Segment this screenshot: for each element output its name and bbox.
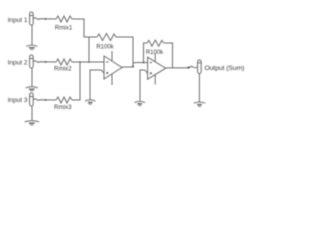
svg-text:Rmix3: Rmix3 [54,104,72,111]
ground GND5 (U2 + input) [135,101,145,105]
svg-text:Input 2: Input 2 [8,60,28,67]
junction dot row3 [45,99,47,101]
op-amp U1 plus mark [106,72,109,74]
wire Rmix1 to summing node [72,19,89,37]
ground GND2 below J2 [26,87,38,91]
ground GND1 below J1 [26,45,37,49]
junction dot U1 output feedback [132,65,134,67]
wire feedback R1 right lead to output [116,37,133,67]
connector J2 (Input 2 jack) [30,55,34,68]
junction dot row1 [45,18,47,20]
wire ground stub J1 [31,25,33,45]
wire ground stub J4 [198,74,200,102]
wire U1 output to U2 inverting input [122,66,133,68]
wire U1 noninverting input to ground [90,70,104,100]
resistor Rmix1 [56,16,72,22]
op-amp U2 plus mark [150,72,153,74]
wire feedback R1 left lead [89,36,97,38]
op-amp U1 [104,56,122,79]
ground GND3 below J3 [25,121,39,125]
svg-text:Rmix2: Rmix2 [54,66,72,73]
junction dot riser at row2 [79,61,81,63]
junction dot summing node at row2 [88,61,90,63]
ground GND4 (U1 + input) [85,100,95,104]
junction dot output node [187,66,189,68]
resistor R100k (U2 feedback) [147,40,164,46]
power pin U2 V+ [154,53,156,62]
wire J2 to Rmix2 [33,61,56,63]
resistor R100k (U1 feedback) [97,34,116,41]
power pin U1 V+ [111,51,113,61]
wire J3 to Rmix3 [33,99,56,101]
svg-text:Input 3: Input 3 [8,97,28,104]
wire summing node drop to row2 [88,37,90,62]
resistor Rmix2 [56,59,72,65]
svg-text:Rmix1: Rmix1 [55,25,73,32]
power pin U1 V- [111,74,113,85]
svg-text:Input 1: Input 1 [8,17,28,24]
wire step to U2 inverting input [133,63,148,68]
wire feedback R2 right lead to output [164,43,173,68]
wire squiggle to output jack [189,66,198,67]
connector J3 (Input 3 jack) [30,93,34,106]
wire Rmix2 to op-amp U1 inverting input [72,61,104,63]
op-amp U2 minus mark [150,62,153,64]
wire Rmix3 riser to row2 [72,62,80,100]
wire ground stub J3 [31,106,33,120]
resistor Rmix3 [56,97,72,103]
svg-text:Output (Sum): Output (Sum) [205,65,245,72]
connector J4 (output jack) [198,60,202,74]
junction dot U2 feedback tap [143,62,145,64]
ground GND6 below output jack [194,102,206,106]
svg-text:R100k: R100k [96,44,114,50]
wire feedback R2 left riser [144,43,148,63]
wire J1 to Rmix1 [33,18,56,20]
wire ground stub J2 [31,68,33,86]
connector J1 (Input 1 jack) [30,12,34,25]
wire U2 output to output jack [166,67,189,69]
op-amp U1 minus mark [106,61,109,63]
junction dot row2 [45,61,47,63]
power pin U2 V- [154,75,156,85]
op-amp U2 [148,57,166,79]
wire U2 noninverting input to ground [140,70,148,101]
